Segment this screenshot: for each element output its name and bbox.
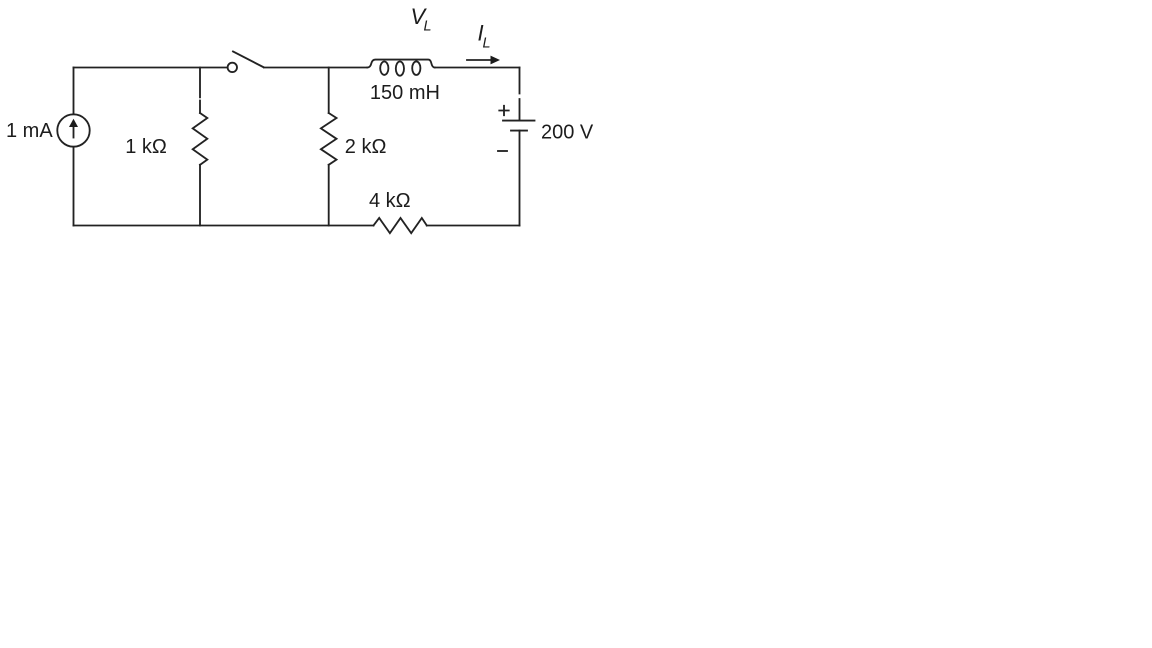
wire branch node B vertical (bottom) [328, 165, 330, 226]
wire branch node A vertical (bottom) [199, 165, 201, 226]
wire right vertical upper [519, 68, 521, 120]
inductor L1 150 mH [367, 60, 435, 68]
svg-text:1 mA: 1 mA [6, 120, 53, 142]
arrow IL current direction [467, 59, 493, 61]
svg-text:L: L [483, 36, 491, 52]
resistor R3 4 kOhm (horizontal) [374, 218, 427, 233]
wire left vertical lower [73, 147, 75, 226]
battery plus sign [499, 106, 508, 115]
resistor R1 1 kOhm (vertical) [193, 113, 208, 165]
wire branch node B vertical (top) [328, 68, 330, 114]
switch S1 (open) [228, 63, 237, 72]
current source I1 1 mA [57, 114, 89, 146]
wire branch node A vertical (top) [199, 68, 201, 114]
resistor R2 2 kOhm (vertical) [321, 113, 337, 165]
svg-text:200 V: 200 V [541, 122, 594, 144]
svg-text:150 mH: 150 mH [370, 82, 440, 104]
wire bottom-right horizontal [427, 225, 520, 227]
wire right vertical lower [519, 131, 521, 226]
svg-text:4 kΩ: 4 kΩ [369, 190, 411, 212]
svg-text:L: L [424, 19, 432, 35]
wire switch to inductor [264, 67, 367, 69]
wire left vertical upper [73, 68, 75, 115]
wire top-left horizontal (source to switch) [74, 67, 228, 69]
battery V1 200 V [503, 120, 535, 122]
svg-text:1 kΩ: 1 kΩ [125, 136, 167, 158]
wire inductor to top-right corner [435, 67, 520, 69]
svg-text:2 kΩ: 2 kΩ [345, 136, 387, 158]
battery minus sign [498, 150, 507, 152]
wire bottom-left horizontal [74, 225, 374, 227]
